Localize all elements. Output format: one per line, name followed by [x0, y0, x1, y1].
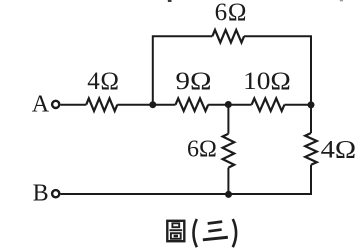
- wire R3 to node N3: [284, 104, 311, 106]
- svg-text:4Ω: 4Ω: [321, 137, 357, 164]
- caption right parenthesis: [233, 219, 236, 247]
- caption glyph TU middle cover stroke: [169, 229, 182, 231]
- node N3 junction dot: [308, 101, 315, 108]
- svg-text:10Ω: 10Ω: [243, 68, 291, 95]
- resistor R5 6ohm vertical: [223, 134, 235, 168]
- wire node N2 down to R5: [227, 105, 229, 134]
- svg-text:6Ω: 6Ω: [187, 137, 217, 163]
- caption left parenthesis: [194, 219, 197, 247]
- stray mark at top edge: [168, 0, 172, 2]
- resistor R3 10ohm horizontal: [252, 98, 285, 111]
- caption glyph SAN bottom stroke: [203, 236, 228, 242]
- caption glyph TU bottom box: [171, 233, 181, 239]
- wire node N3 down to R6: [310, 105, 312, 133]
- caption glyph SAN top stroke: [208, 220, 223, 225]
- wire R2 to R3 through node N2: [208, 104, 251, 106]
- caption glyph TU inner top mouth: [172, 223, 179, 227]
- svg-text:B: B: [33, 181, 49, 207]
- svg-text:9Ω: 9Ω: [176, 68, 212, 95]
- svg-text:A: A: [32, 91, 50, 117]
- bottom node junction dot: [225, 191, 232, 198]
- node N2 junction dot: [225, 101, 232, 108]
- svg-text:4Ω: 4Ω: [87, 68, 119, 95]
- resistor R6 4ohm vertical: [305, 133, 317, 165]
- terminal B circle: [52, 190, 59, 197]
- wire top-right segment down to node N3: [244, 36, 311, 105]
- caption glyph TU bottom box inner fill: [174, 235, 178, 238]
- faint stray mark top right: [340, 0, 343, 1]
- svg-text:6Ω: 6Ω: [215, 0, 248, 26]
- resistor R1 4ohm horizontal: [86, 98, 117, 111]
- wire R6 down to bottom-right corner: [310, 165, 312, 194]
- caption figure-3: [167, 219, 236, 247]
- bottom wire from B to bottom-right corner: [61, 192, 312, 194]
- caption glyph SAN middle stroke: [208, 228, 222, 232]
- wire R1 to R2 through node N1: [117, 104, 175, 106]
- caption glyph TU (figure) outer box: [167, 221, 184, 241]
- resistor R2 9ohm horizontal: [176, 98, 209, 111]
- wire A to R1: [61, 104, 87, 106]
- wire R5 down to bottom node: [227, 168, 229, 194]
- terminal A circle: [52, 101, 59, 108]
- node N1 junction dot: [149, 101, 156, 108]
- wire node N1 up and top-left segment: [153, 36, 213, 105]
- resistor R4 6ohm top horizontal: [212, 30, 244, 43]
